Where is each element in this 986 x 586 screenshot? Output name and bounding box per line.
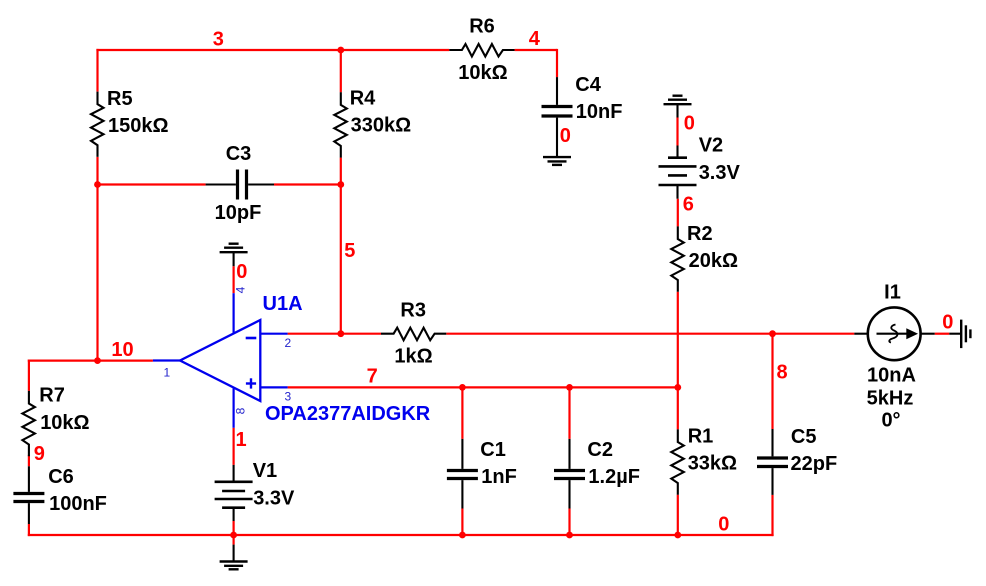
ground right of I1 (rotated): [949, 320, 970, 349]
battery V2: [659, 135, 741, 199]
node 3 label: [213, 29, 224, 51]
svg-text:OPA2377AIDGKR: OPA2377AIDGKR: [265, 403, 431, 425]
junction dot 1: [337, 47, 344, 54]
node 4 label: [529, 28, 541, 50]
resistor R1: [671, 425, 737, 494]
op-amp pin 1 stub (output): [153, 359, 180, 361]
svg-text:1.2µF: 1.2µF: [588, 466, 640, 488]
svg-text:4: 4: [529, 28, 541, 50]
wire net 9 R7 to C6: [28, 455, 30, 467]
pin number 2: [285, 336, 292, 350]
wire R2 bottom through crossing to net 7 junction: [677, 292, 679, 430]
wire C1 bottom lead red: [461, 509, 463, 537]
node node 0 bottom label: [718, 514, 729, 536]
node node 0 above V2 label: [684, 112, 695, 134]
op-amp pin 3 stub (non-inverting input): [260, 386, 287, 388]
wire C6 bottom to bottom net: [28, 524, 30, 536]
pin number 4 (rotated): [233, 286, 247, 293]
svg-text:1: 1: [164, 366, 171, 380]
svg-text:R5: R5: [107, 88, 133, 110]
junction dot 6: [459, 384, 466, 391]
wire C2 top lead red: [568, 387, 570, 439]
wire I1 right red segment net 0: [935, 333, 950, 335]
svg-text:33kΩ: 33kΩ: [688, 453, 737, 475]
wire R1 bottom to bottom net: [677, 495, 679, 536]
op-amp pin 4 stub (V+): [233, 293, 235, 333]
svg-text:1kΩ: 1kΩ: [394, 345, 432, 367]
junction dot 3: [337, 181, 344, 188]
ground below battery V1: [220, 545, 248, 570]
pin number 8 (rotated): [233, 407, 247, 414]
svg-text:V1: V1: [253, 460, 277, 482]
battery V1: [215, 460, 295, 521]
svg-text:R7: R7: [39, 385, 65, 407]
wire V1 ground red stub: [233, 535, 235, 545]
svg-text:C4: C4: [575, 74, 601, 96]
svg-text:8: 8: [777, 362, 788, 384]
svg-text:0: 0: [718, 514, 729, 536]
op-amp pin 2 stub (inverting input): [260, 333, 287, 335]
op-amp part number label: [265, 403, 431, 425]
wire minus-input to R3: [288, 333, 381, 335]
svg-text:10nF: 10nF: [576, 101, 623, 123]
svg-text:5: 5: [344, 240, 355, 262]
op-amp pin 8 stub (V-): [233, 388, 235, 428]
svg-text:10: 10: [111, 339, 133, 361]
wire net 6 V2 to R2: [677, 199, 679, 227]
svg-text:R2: R2: [687, 223, 713, 245]
svg-text:10nA: 10nA: [867, 365, 916, 387]
svg-text:10kΩ: 10kΩ: [40, 412, 89, 434]
capacitor C3 (horizontal): [206, 143, 274, 224]
resistor R4: [334, 87, 411, 157]
resistor R2: [671, 223, 738, 292]
svg-text:0: 0: [684, 112, 695, 134]
node 8 label: [777, 362, 788, 384]
svg-text:3: 3: [285, 390, 292, 404]
op-amp U1 triangle: [180, 320, 260, 401]
svg-text:C6: C6: [48, 466, 74, 488]
wire net 1 op-amp pin8 to V1: [233, 428, 235, 465]
svg-text:10pF: 10pF: [215, 202, 262, 224]
resistor R6: [449, 16, 514, 84]
capacitor C6: [13, 466, 107, 524]
svg-text:22pF: 22pF: [791, 453, 838, 475]
capacitor C1: [447, 439, 517, 509]
pin number 3: [285, 390, 292, 404]
svg-text:R1: R1: [688, 425, 714, 447]
wire V1 bottom to bottom net: [233, 521, 235, 535]
junction dot 11: [459, 532, 466, 539]
svg-text:R4: R4: [350, 87, 376, 109]
junction dot 4: [337, 330, 344, 337]
svg-text:3.3V: 3.3V: [699, 162, 741, 184]
wire bottom net 0 horizontal: [28, 534, 773, 536]
op-amp label U1A: [263, 293, 303, 315]
resistor R7: [22, 385, 89, 457]
wire net 4 R6 to C4 corner: [515, 49, 557, 77]
node node 0 above op-amp label: [236, 261, 247, 283]
wire C2 bottom lead red: [568, 509, 570, 537]
capacitor C4: [542, 74, 623, 157]
current source I1: [854, 282, 934, 432]
svg-text:0: 0: [560, 125, 571, 147]
svg-text:2: 2: [285, 336, 292, 350]
svg-text:7: 7: [367, 366, 378, 388]
wire C1 top lead red: [461, 387, 463, 439]
svg-text:3: 3: [213, 29, 224, 51]
ground above op-amp pin4: [220, 244, 248, 267]
wire C5 bottom corner to bottom net: [773, 495, 774, 536]
node 5 label: [344, 240, 355, 262]
svg-text:1: 1: [236, 429, 247, 451]
wire left column R5 to C3 net to output net: [96, 157, 98, 361]
node node 1 below op-amp label: [236, 429, 247, 451]
node node 0 at C4 label: [560, 125, 571, 147]
wire C3 net right segment: [274, 183, 342, 185]
svg-text:330kΩ: 330kΩ: [351, 115, 412, 137]
svg-text:5kHz: 5kHz: [867, 388, 914, 410]
resistor R5: [91, 88, 169, 157]
svg-text:0°: 0°: [881, 410, 900, 432]
svg-text:20kΩ: 20kΩ: [689, 250, 738, 272]
wire V2 ground lead red: [676, 118, 678, 146]
wire output net 10 horizontal: [28, 360, 153, 362]
svg-text:0: 0: [236, 261, 247, 283]
wire R4 bottom to C3 net: [340, 158, 342, 185]
svg-text:C3: C3: [226, 143, 252, 165]
wire R4 column top (net 3 to R4): [340, 49, 342, 92]
svg-text:3.3V: 3.3V: [253, 487, 295, 509]
svg-text:R6: R6: [469, 16, 495, 38]
junction dot 2: [94, 181, 101, 188]
wire C3 net left segment: [98, 183, 206, 185]
svg-text:C5: C5: [791, 426, 817, 448]
svg-text:4: 4: [233, 286, 247, 293]
wire net 8 vertical to C5: [771, 334, 773, 429]
svg-text:I1: I1: [884, 282, 901, 304]
junction dot 5: [94, 357, 101, 364]
svg-text:10kΩ: 10kΩ: [458, 62, 507, 84]
pin number 1: [164, 366, 171, 380]
wire op-amp pin4 red segment: [233, 266, 235, 293]
node 9 label: [34, 443, 45, 465]
wire top net 3 horizontal: [96, 49, 449, 51]
junction dot 7: [566, 384, 573, 391]
wire net 5 vertical: [340, 185, 342, 335]
node 6 label: [683, 193, 694, 215]
junction dot 12: [566, 532, 573, 539]
svg-text:C1: C1: [480, 439, 506, 461]
svg-text:9: 9: [34, 443, 45, 465]
svg-text:100nF: 100nF: [49, 493, 107, 515]
node 7 label: [367, 366, 378, 388]
svg-text:8: 8: [233, 407, 247, 414]
node node 0 at I1 label: [942, 312, 953, 334]
wire R7 column top: [28, 360, 30, 391]
junction dot 13: [674, 532, 681, 539]
svg-text:U1A: U1A: [263, 293, 303, 315]
svg-text:1nF: 1nF: [481, 466, 517, 488]
svg-text:0: 0: [942, 312, 953, 334]
capacitor C5: [757, 426, 837, 495]
wire net 8 horizontal R3 to I1: [446, 333, 854, 335]
resistor R3: [381, 300, 446, 368]
junction dot 10: [230, 532, 237, 539]
svg-text:V2: V2: [699, 135, 723, 157]
ground below capacitor C4: [543, 157, 571, 165]
ground above battery V2: [664, 96, 692, 118]
svg-text:R3: R3: [400, 300, 426, 322]
node 10 label: [111, 339, 133, 361]
capacitor C2: [554, 439, 640, 509]
svg-text:150kΩ: 150kΩ: [108, 115, 169, 137]
junction dot 9: [769, 330, 776, 337]
wire left column top (net 3 to R5): [96, 49, 98, 92]
junction dot 8: [674, 384, 681, 391]
wire net 7 horizontal: [288, 386, 678, 388]
svg-text:6: 6: [683, 193, 694, 215]
svg-text:C2: C2: [587, 439, 613, 461]
